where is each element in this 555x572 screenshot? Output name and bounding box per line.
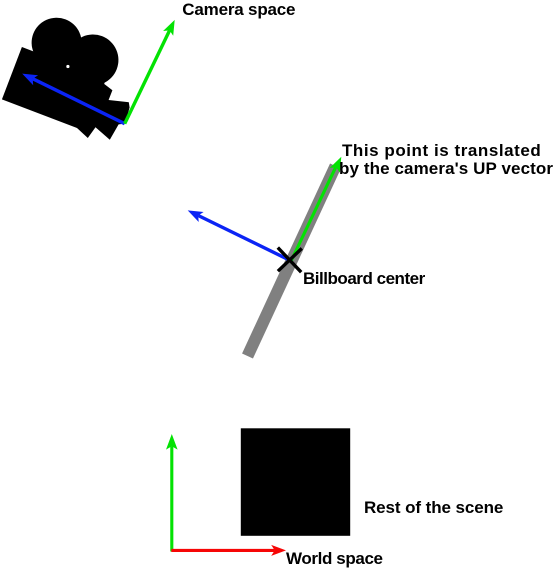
node: billboard center X mark bbox=[278, 248, 302, 273]
label: Rest of the scene bbox=[364, 499, 503, 518]
camera reel gap dot bbox=[66, 65, 69, 68]
camera reel left bbox=[24, 10, 89, 75]
wire: world green up arrow bbox=[166, 434, 178, 552]
camera body bbox=[2, 47, 106, 131]
rest of the scene square bbox=[241, 428, 350, 536]
wire: billboard green up arrow bbox=[291, 157, 341, 261]
wire: camera green up arrow bbox=[125, 20, 175, 124]
wire: billboard blue axis arrow bbox=[188, 210, 292, 261]
label: This point is translated / by the camera's UP vector bbox=[342, 142, 541, 161]
label: Billboard center bbox=[303, 270, 425, 289]
billboard bar bbox=[248, 166, 336, 356]
wire: world red x arrow bbox=[171, 545, 286, 556]
camera reel right bbox=[60, 27, 126, 93]
camera U1 bbox=[2, 8, 127, 133]
wire: camera blue axis arrow bbox=[22, 74, 125, 124]
label: Camera space bbox=[182, 1, 295, 20]
camera lens and feet bbox=[60, 78, 130, 140]
label: World space bbox=[286, 550, 383, 569]
